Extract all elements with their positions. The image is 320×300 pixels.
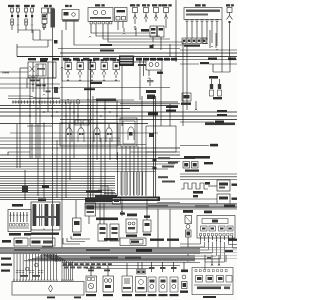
wire main harness band 1 [0,247,237,254]
ignition coil T1 [134,59,163,79]
sensor B2 chain [180,262,188,293]
control unit nest N16 [120,118,137,146]
diagnostic module EDS [0,0,1,1]
lamp E6 [170,262,179,296]
capacitor R16/2 [146,78,156,99]
switch S2 [62,5,79,30]
wire main harness band 2 [24,254,237,262]
switch E15/3 [8,5,20,30]
fuse S9/1 [130,4,140,30]
relay K6/1 [115,8,128,22]
switch E17/3 [24,5,35,30]
sensor chain B11/4 [183,210,193,262]
antenna W3 [226,4,234,56]
wire right bottom corners [205,255,226,266]
fuse S11/2 [162,4,172,28]
relay K6/2 [141,26,164,50]
sensor T7 [143,216,151,236]
fuse S10/2 [152,4,162,21]
lamp E4 [148,262,157,296]
wire bundle ticks [13,99,235,126]
wire right sparse [180,121,224,147]
switch S29 pair [96,218,119,242]
oxygen sensor G3/2 cluster [180,156,237,180]
wire grid verticals [17,60,117,200]
wire fusebox drops fan [1,254,73,282]
terminal 15 wire [180,57,237,73]
ignition module W11 [88,4,113,24]
control module A1 pin connector [98,152,160,201]
wire S8 below [0,68,60,103]
wire grid horizontals [0,126,195,172]
relay box right K27 [146,126,176,152]
svg-text:3-H60: 3-H60 [2,71,10,75]
fuse S13 [142,4,150,22]
switch E17/4 [31,8,34,33]
wire gutter band [85,203,237,209]
connector T1/4 pair [138,58,146,76]
junction label 3-H60 [2,71,10,75]
wire lower-left stack [0,176,117,199]
wire mid verticals 2 [122,44,170,126]
wire corners above band [63,236,179,246]
junction arrows mid [120,199,170,248]
module A1 bottom-left [2,238,55,249]
wire top-right bus [17,20,237,72]
blower switch M4/5 [8,204,31,236]
relay module K9 [42,5,56,30]
control module N3 [197,211,235,239]
instrument cluster G2/9 [182,4,222,50]
wire mid-top verticals [62,0,187,253]
label row EN [28,56,177,67]
wire N3 pins down [180,236,237,270]
motor M16/2 [86,266,97,296]
connector boxes under bundle [75,120,89,125]
pump assembly M3 [192,268,233,299]
switch unit S8 [28,60,56,79]
wire harness bundle main [0,96,237,124]
injector row Y62 [60,59,170,90]
wire label rows bottom [62,263,200,272]
sensor box row B11 [60,123,118,146]
sensor B5/1 [208,180,238,191]
heater unit hatched [31,199,60,235]
solenoid Y1 [73,200,82,236]
sensor B5/2 [157,194,238,205]
speed signal waveform [181,182,210,194]
lamp E5 [159,262,168,296]
fuse box X4/10 [12,282,84,299]
lamp E3 double [135,262,147,296]
wire ecu bundle verticals [122,96,170,199]
switch E15/4 [17,8,20,30]
wire W11 nested leads [74,22,190,52]
wire labels right column [158,157,178,182]
relay N8 [85,198,121,225]
wire cluster-C leads [17,28,60,255]
connector W9/1 [181,93,197,110]
motor M16/3 [103,266,114,296]
sensor 4-50 [126,214,137,237]
switch S85 [122,263,133,296]
lamp sockets R4 pair [209,76,222,99]
